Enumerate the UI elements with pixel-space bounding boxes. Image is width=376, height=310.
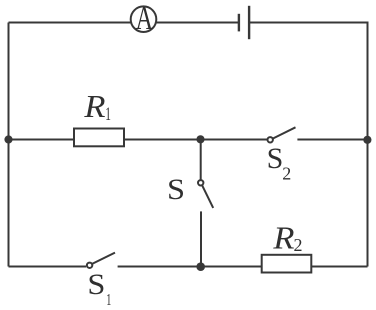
wire: centre node down to switch S	[200, 140, 202, 180]
switch S pivot circle	[198, 180, 203, 185]
wire: bottom side, left corner to switch S1	[9, 266, 87, 268]
svg-text:R: R	[272, 222, 294, 256]
wire: left side, top-left corner down to bottom-left corner	[8, 23, 10, 267]
switch S1 arm (open)	[92, 253, 115, 264]
switch S1 pivot circle	[87, 263, 92, 268]
label S	[167, 172, 185, 206]
resistor R2 box	[262, 255, 312, 273]
node: left middle junction	[4, 135, 12, 143]
wire: top side, corner to battery short plate	[9, 22, 239, 24]
svg-text:1: 1	[105, 104, 111, 125]
switch S2 arm (open)	[273, 127, 296, 138]
resistor R1 box	[74, 129, 124, 147]
wire: middle row from left node through R1 to switch S2	[9, 139, 268, 141]
label R2	[272, 222, 294, 256]
ammeter A circle	[131, 6, 157, 32]
svg-text:S: S	[267, 142, 284, 175]
wire: bottom side, right corner to R2	[311, 266, 367, 268]
ammeter label A	[136, 0, 153, 37]
wire: S2 to right middle node	[297, 139, 367, 141]
svg-text:2: 2	[282, 164, 291, 184]
battery long plate (positive)	[248, 6, 250, 39]
svg-text:S: S	[87, 267, 105, 301]
switch S2 pivot circle	[268, 137, 273, 142]
wire: battery to top-right corner, down right side	[249, 23, 367, 267]
node: right middle junction	[363, 136, 371, 144]
battery short plate (negative)	[238, 14, 240, 32]
svg-text:2: 2	[294, 235, 303, 255]
svg-text:R: R	[83, 90, 105, 124]
label S1	[87, 267, 105, 301]
svg-text:1: 1	[106, 291, 111, 309]
node: bottom centre junction	[196, 262, 205, 271]
wire: below switch S down to bottom node	[200, 211, 202, 266]
svg-text:S: S	[167, 172, 185, 206]
wire: S1 to bottom centre node and on to R2	[118, 266, 312, 268]
label R1	[83, 90, 105, 124]
switch S arm (open)	[202, 185, 213, 208]
node: centre middle junction	[196, 135, 204, 143]
svg-text:A: A	[136, 0, 153, 37]
